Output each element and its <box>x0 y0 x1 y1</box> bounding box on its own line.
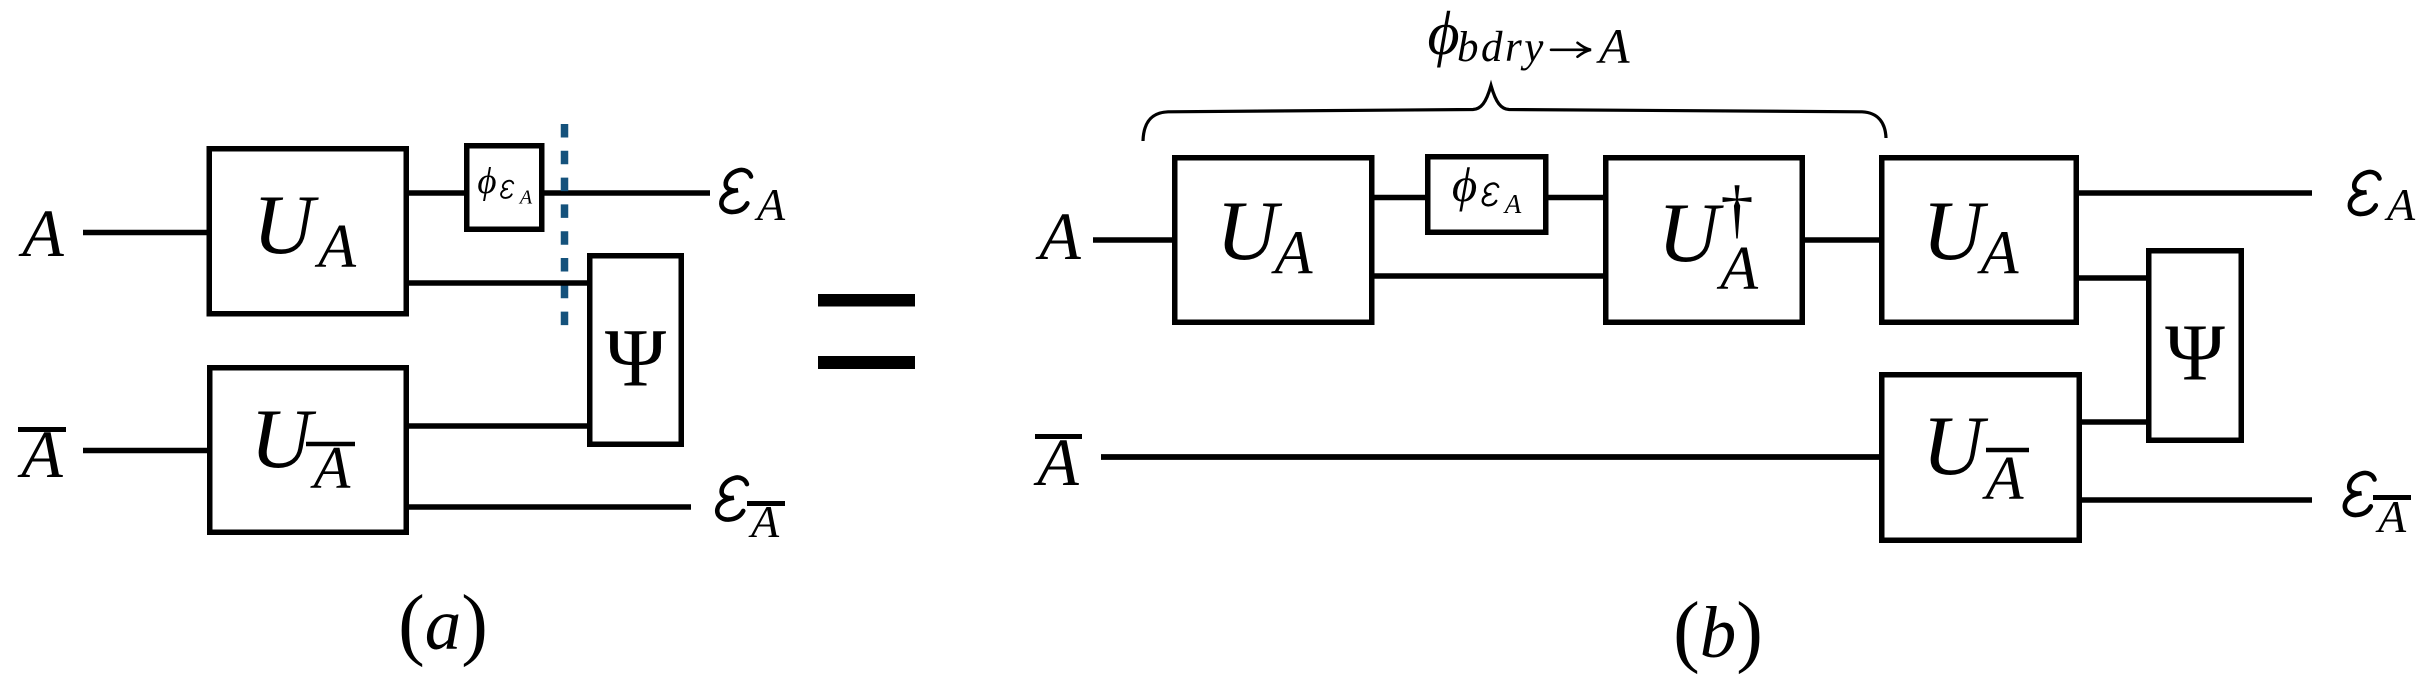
wire: U_Abar to Psi (a) <box>406 423 592 429</box>
node Abar label (b) <box>1033 424 1082 500</box>
svg-text:ϕ: ϕ <box>1452 157 1477 212</box>
wire: phi box to U_A dagger (b) <box>1546 195 1606 201</box>
box U_A (a) <box>209 149 406 314</box>
wire: U_Abar to E_Abar (a) <box>406 504 691 510</box>
svg-text:A: A <box>1982 445 2025 513</box>
label E_Abar (a) <box>717 478 785 547</box>
label E_Abar (b) <box>2345 473 2411 542</box>
svg-text:A: A <box>1716 235 1759 303</box>
svg-text:U: U <box>253 178 319 272</box>
svg-text:(a): (a) <box>398 580 488 668</box>
wire: U_A second to E_A (b) <box>2077 190 2312 196</box>
label phi_bdry->A <box>1428 0 1631 74</box>
svg-text:bdry: bdry <box>1457 24 1546 71</box>
node Abar label (a) <box>17 416 66 492</box>
box U_A second (b) <box>1882 158 2077 323</box>
wire: A input (a) <box>83 230 209 236</box>
svg-text:A: A <box>1503 189 1522 219</box>
svg-text:U: U <box>1658 186 1724 280</box>
box U_A first (b) <box>1175 158 1372 323</box>
wire: U_Abar to Psi (b) <box>2080 419 2151 425</box>
wire: U_A to phi box (a) <box>406 190 467 196</box>
svg-text:A: A <box>518 186 533 208</box>
svg-text:(b): (b) <box>1673 587 1763 675</box>
svg-text:Ψ: Ψ <box>2165 308 2225 398</box>
svg-text:A: A <box>754 179 786 230</box>
equals sign <box>818 294 915 369</box>
wire: U_A dagger to U_A second (b) <box>1803 237 1884 243</box>
svg-text:ϕ: ϕ <box>477 161 496 202</box>
box phi_EA (a) <box>467 146 542 230</box>
wire: U_A second to Psi (b) <box>2077 275 2151 281</box>
svg-text:U: U <box>250 392 316 486</box>
box U_A dagger (b) <box>1606 158 1803 323</box>
label E_A (a) <box>721 170 786 230</box>
wire: U_A to phi box (b) <box>1372 195 1430 201</box>
dashed cut line (a) <box>561 124 569 330</box>
box Psi (b) <box>2149 251 2242 441</box>
svg-text:U: U <box>1922 184 1988 278</box>
svg-text:A: A <box>1596 18 1630 74</box>
box Psi (a) <box>590 256 682 445</box>
brace over phi_bdry->A <box>1143 86 1886 142</box>
wire: Abar long input (b) <box>1101 454 1884 460</box>
wire: U_A to U_A dagger lower (b) <box>1372 273 1606 279</box>
svg-text:A: A <box>1035 198 1081 274</box>
svg-text:A: A <box>1977 220 2020 288</box>
svg-text:A: A <box>310 435 351 501</box>
wire: U_A to Psi (a) <box>406 280 592 286</box>
wire: A input (b) <box>1093 237 1175 243</box>
svg-text:ϕ: ϕ <box>1428 0 1460 68</box>
svg-text:A: A <box>1271 220 1314 288</box>
svg-text:A: A <box>314 213 357 281</box>
svg-text:U: U <box>1216 184 1282 278</box>
box U_Abar (a) <box>210 368 407 533</box>
wire: Abar input (a) <box>83 448 210 454</box>
box U_Abar (b) <box>1882 375 2080 541</box>
label E_A (b) <box>2350 172 2416 230</box>
svg-text:A: A <box>18 195 64 271</box>
wire: U_Abar to E_Abar (b) <box>2080 497 2312 503</box>
wire: phi box to E_A (a) <box>542 190 710 196</box>
svg-text:U: U <box>1922 399 1988 493</box>
box phi_EA (b) <box>1428 157 1546 233</box>
svg-text:A: A <box>2384 179 2416 230</box>
svg-text:Ψ: Ψ <box>605 312 667 404</box>
